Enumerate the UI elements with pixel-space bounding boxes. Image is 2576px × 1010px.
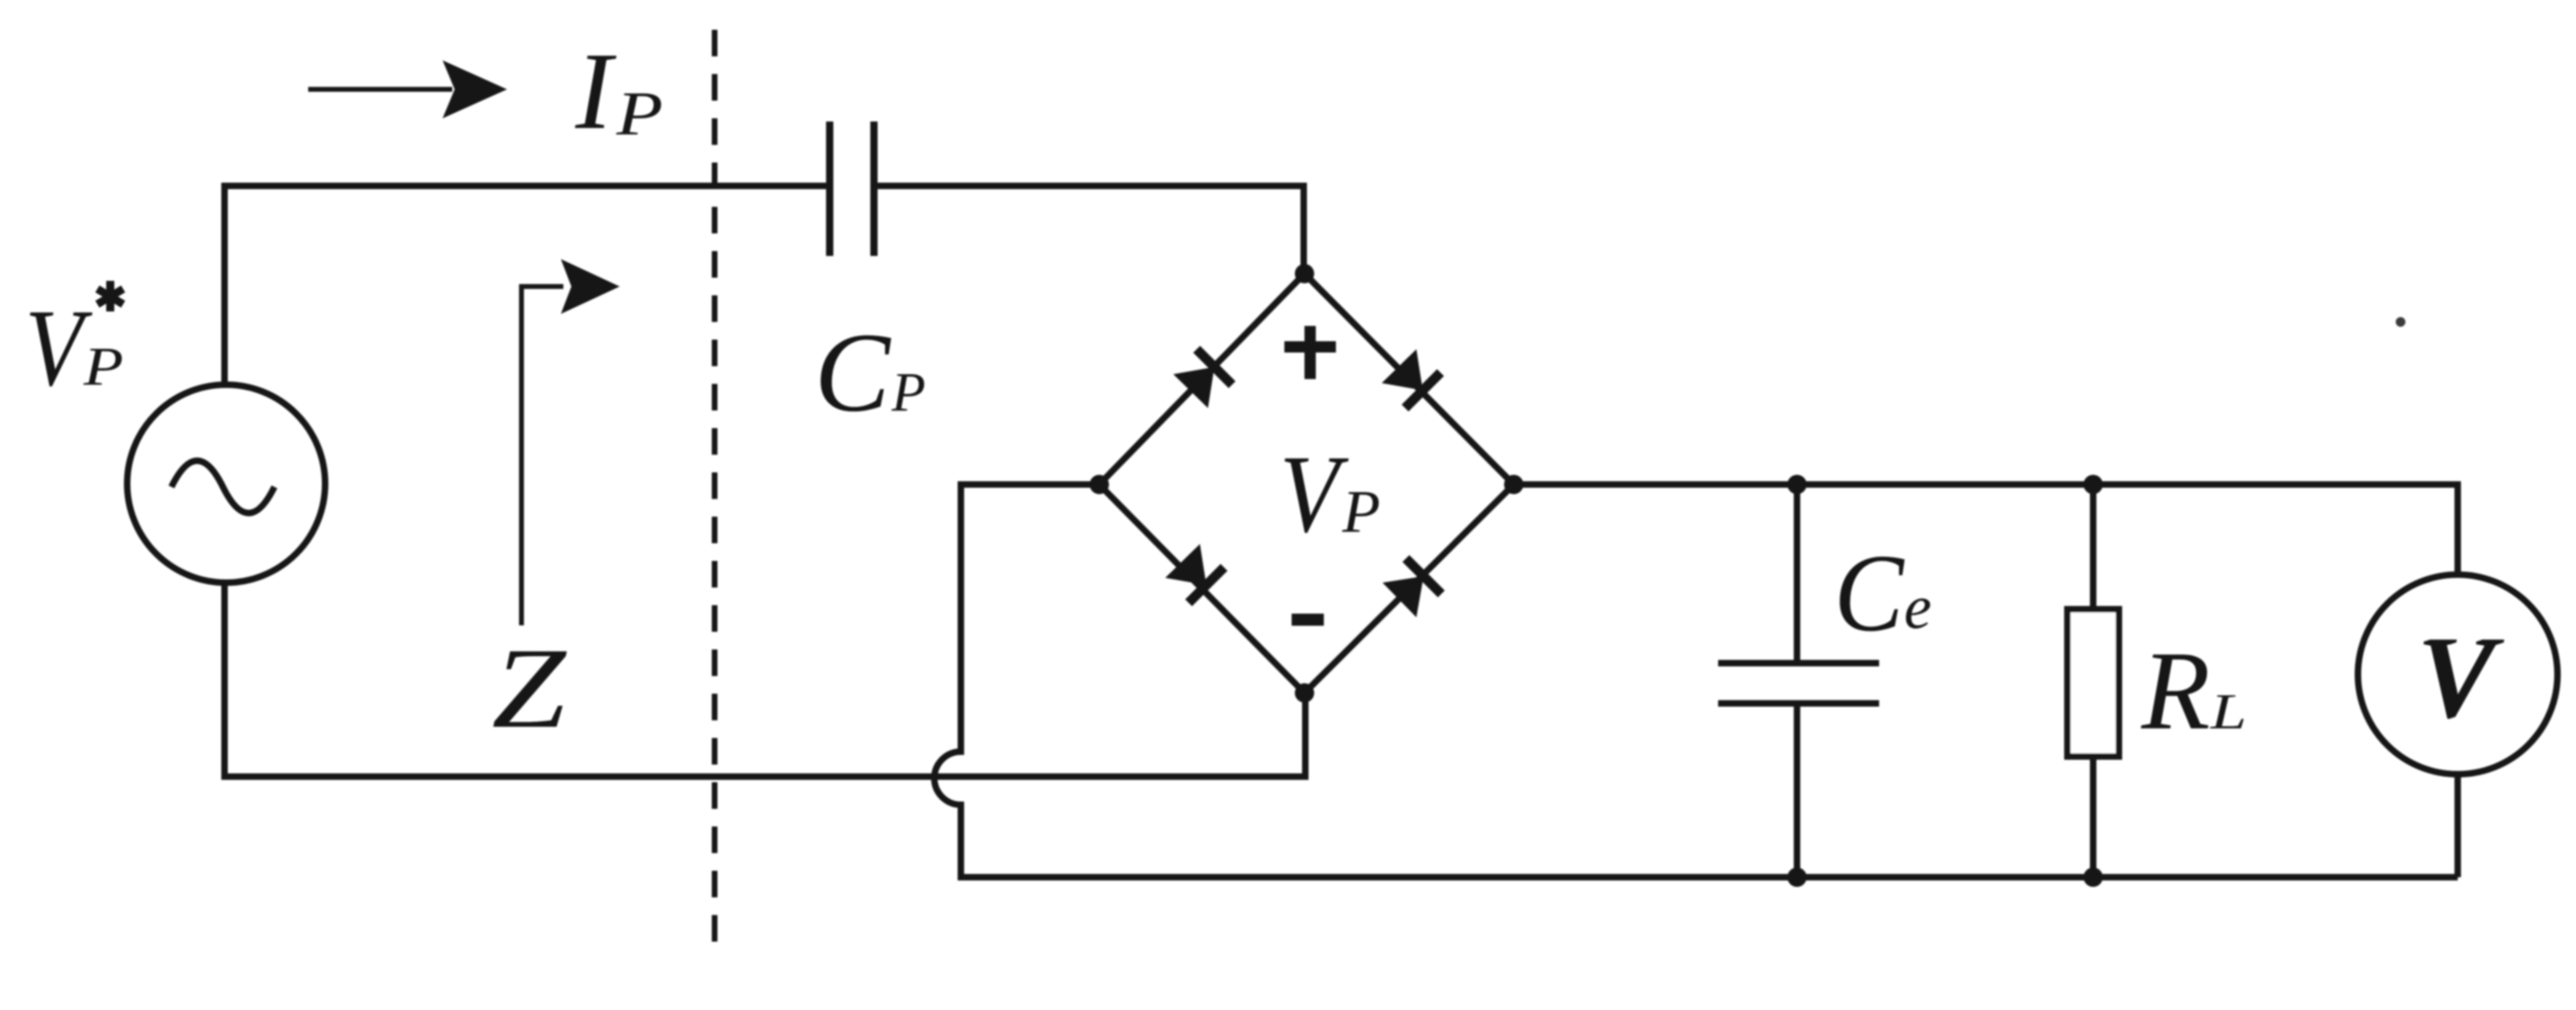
svg-text:P: P <box>1342 479 1380 546</box>
junction dot Ce top <box>1787 475 1807 494</box>
capacitor CP plates <box>830 122 874 256</box>
wire capacitor Ce bottom stub <box>1794 703 1800 877</box>
svg-text:L: L <box>2210 683 2247 740</box>
AC source V*P circle <box>127 385 325 583</box>
bridge rectifier diamond <box>1099 274 1514 693</box>
resistor RL body <box>2067 609 2119 756</box>
label V meter <box>2417 613 2504 743</box>
diode D4 bottom-right <box>1383 559 1441 617</box>
svg-text:Z: Z <box>492 625 567 752</box>
wire bridge right node to voltmeter <box>1514 484 2458 576</box>
svg-text:P: P <box>616 79 663 148</box>
AC source sine symbol <box>171 461 274 513</box>
svg-text:C: C <box>1834 531 1905 654</box>
svg-text:V: V <box>2420 614 2502 742</box>
junction dot bridge left <box>1090 475 1109 494</box>
diode D1 top-left <box>1173 349 1232 408</box>
svg-text:R: R <box>2141 629 2211 753</box>
wire top rail left <box>225 186 830 385</box>
current arrow IP <box>308 60 507 118</box>
svg-text:P: P <box>891 361 925 423</box>
stray dot artifact <box>2396 317 2405 327</box>
wire bridge left node to lower rail with hop <box>934 484 2458 877</box>
wire capacitor Ce top stub <box>1794 484 1800 663</box>
svg-text:C: C <box>814 310 892 435</box>
wire resistor RL bottom stub <box>2090 756 2096 877</box>
svg-text:P: P <box>83 336 124 398</box>
minus polarity mark <box>1292 614 1324 626</box>
wire top rail right of capacitor <box>874 186 1304 274</box>
capacitor Ce plates <box>1718 663 1879 703</box>
wire voltmeter bottom stub <box>2454 773 2461 877</box>
wire resistor RL top stub <box>2090 484 2096 609</box>
svg-text:I: I <box>575 30 616 152</box>
junction dot bridge right <box>1504 475 1523 494</box>
junction dot RL top <box>2083 475 2103 494</box>
svg-text:V: V <box>1280 433 1349 556</box>
junction dot RL bottom <box>2083 868 2103 887</box>
junction dot bridge bottom <box>1295 683 1314 703</box>
svg-text:V: V <box>25 287 93 409</box>
diode D2 top-right <box>1382 349 1440 408</box>
wire AC source bottom return <box>225 582 1305 777</box>
diode D3 bottom-left <box>1165 544 1224 603</box>
impedance arrow Z <box>521 259 620 625</box>
junction dot Ce bottom <box>1787 868 1807 887</box>
plus polarity mark <box>1284 326 1336 379</box>
junction dot bridge top <box>1295 264 1314 283</box>
voltmeter V circle <box>2358 575 2557 774</box>
svg-text:e: e <box>1904 572 1931 641</box>
dashed boundary line <box>712 30 718 943</box>
